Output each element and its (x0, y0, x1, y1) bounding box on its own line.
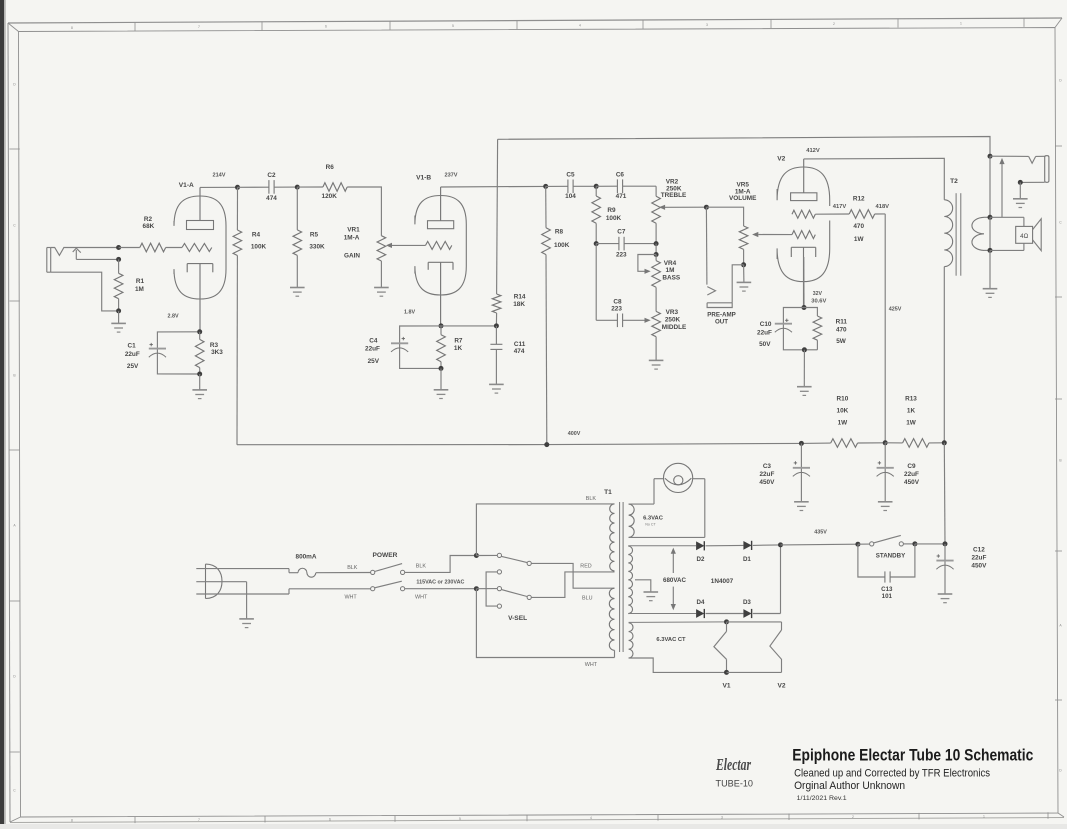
label 800mA (296, 553, 317, 560)
svg-text:1W: 1W (854, 236, 865, 243)
node WHT junction (474, 586, 479, 591)
svg-text:R4: R4 (252, 232, 261, 239)
resistor R14 (492, 139, 501, 326)
label D1 (743, 556, 751, 563)
svg-text:Electar: Electar (715, 755, 751, 774)
svg-text:R14: R14 (514, 294, 526, 301)
label PRE-AMP OUT (707, 311, 736, 325)
node cathode RC bottom junction (802, 347, 807, 352)
label 214V (212, 173, 225, 179)
wire mains neutral prong (196, 589, 289, 594)
ground under VR5 (737, 265, 752, 291)
label D4 (697, 599, 705, 606)
svg-text:BASS: BASS (662, 275, 680, 282)
svg-text:BLK: BLK (347, 565, 358, 571)
heater V1 (714, 622, 727, 673)
svg-text:8: 8 (71, 26, 73, 30)
potentiometer VR2 (652, 186, 707, 243)
svg-text:C9: C9 (907, 463, 916, 470)
svg-text:1W: 1W (906, 420, 917, 427)
label 417V (833, 204, 847, 210)
resistor R10 (831, 439, 886, 448)
svg-text:22uF: 22uF (904, 471, 919, 478)
svg-text:100K: 100K (554, 242, 570, 249)
label R2 value (143, 216, 155, 230)
wire C7 node down to C8 (595, 244, 597, 321)
svg-text:C12: C12 (973, 546, 985, 553)
svg-text:10K: 10K (837, 408, 849, 415)
svg-text:R12: R12 (853, 195, 865, 202)
label 6.3VAC CT (656, 637, 686, 643)
svg-text:1M-A: 1M-A (344, 234, 360, 241)
switch POWER pole 1 (371, 556, 475, 575)
speaker jack (990, 156, 1049, 183)
svg-text:330K: 330K (309, 244, 325, 251)
resistor R13 (885, 439, 944, 448)
svg-text:TREBLE: TREBLE (661, 192, 687, 199)
wire rail to C12 node (943, 443, 946, 544)
svg-text:1K: 1K (454, 345, 463, 352)
svg-text:D2: D2 (697, 556, 705, 563)
svg-text:5: 5 (459, 817, 461, 821)
svg-text:C7: C7 (617, 229, 626, 236)
svg-text:32V: 32V (813, 291, 823, 297)
ground under VR1 (374, 288, 389, 297)
svg-text:6: 6 (325, 25, 327, 29)
capacitor C5 (546, 180, 597, 194)
node R3 bottom junction (197, 372, 202, 377)
wire V-SEL strap (486, 572, 497, 606)
wire WHT to T1 bottom (476, 589, 614, 658)
svg-text:WHT: WHT (344, 595, 357, 601)
svg-text:R10: R10 (837, 395, 849, 402)
label 4 ohm (1020, 233, 1028, 240)
svg-text:T1: T1 (604, 489, 612, 496)
svg-text:VR4: VR4 (664, 260, 677, 267)
label 237V (444, 173, 457, 179)
ground under R5 (290, 288, 305, 297)
label 1.8V (404, 310, 415, 316)
capacitor C4 (391, 326, 441, 369)
node C12 junction (943, 541, 948, 546)
svg-text:C5: C5 (566, 172, 575, 179)
wire D3 output up (780, 545, 782, 614)
svg-text:V2: V2 (777, 156, 785, 163)
ground under R3 (192, 374, 207, 399)
svg-text:6.3VAC: 6.3VAC (643, 515, 664, 521)
pilot lamp (664, 463, 693, 492)
label R3 value (210, 342, 223, 356)
resistor R6 (297, 183, 381, 236)
svg-text:22uF: 22uF (759, 471, 774, 478)
svg-text:RED: RED (580, 564, 591, 570)
label R7 value (454, 338, 463, 352)
node speaker jack sleeve junction (1018, 180, 1023, 185)
wire V2 cathode down (803, 257, 805, 308)
label R4 value (251, 232, 267, 251)
diode D2 (696, 541, 743, 550)
diode D3 (743, 609, 780, 618)
speaker 4 ohm (990, 217, 1041, 250)
svg-text:115VAC or 230VAC: 115VAC or 230VAC (416, 579, 464, 585)
svg-text:1W: 1W (838, 420, 849, 427)
wire mains hot prong (196, 569, 289, 573)
svg-text:BLK: BLK (586, 496, 597, 502)
svg-text:VR3: VR3 (666, 309, 679, 316)
node rail R8 junction (544, 442, 549, 447)
wire V1-B cathode to R14 node (441, 325, 496, 327)
svg-text:WHT: WHT (585, 662, 598, 668)
wire V1-B plate to C5 node (441, 185, 546, 188)
svg-text:TUBE-10: TUBE-10 (716, 779, 754, 790)
node speaker tip junction (988, 154, 993, 159)
label 425V (889, 306, 902, 312)
wire V2 plate 412V to T2 (804, 158, 945, 200)
label VR3 value (662, 309, 687, 331)
label V1 (722, 683, 730, 690)
wire heater bottom to V2 (727, 671, 782, 673)
capacitor C7 (596, 237, 656, 251)
label BLU (582, 596, 593, 602)
wire wiper node to VR5 top (706, 207, 743, 226)
wire 400V rail left (237, 443, 831, 445)
ground under R7 (434, 368, 449, 398)
label V1-B (416, 174, 431, 181)
node rail C3 junction (799, 441, 804, 446)
label V2 (777, 156, 785, 163)
input jack sleeve wire (51, 272, 119, 311)
node C5 left junction (543, 184, 548, 189)
svg-text:D1: D1 (743, 556, 751, 563)
transformer T1 secondary 680VAC (628, 546, 696, 614)
label R8 value (554, 228, 570, 249)
label 30.6V (811, 298, 826, 304)
svg-text:50V: 50V (759, 341, 771, 348)
svg-text:C1: C1 (128, 342, 137, 349)
capacitor C13 (858, 544, 915, 583)
svg-text:C3: C3 (763, 463, 772, 470)
wire rectifier to standby (781, 543, 858, 546)
svg-text:7: 7 (198, 25, 200, 29)
svg-text:4: 4 (579, 23, 581, 27)
svg-text:22uF: 22uF (365, 345, 380, 352)
svg-text:120K: 120K (322, 193, 338, 200)
node rail C9 junction (883, 440, 888, 445)
capacitor C11 (490, 326, 502, 385)
ground under R1 (111, 311, 126, 332)
label 418V (876, 204, 890, 210)
label 435V (814, 529, 827, 535)
svg-text:22uF: 22uF (757, 329, 772, 336)
svg-text:No CT: No CT (645, 522, 656, 526)
node input switch junction (116, 257, 121, 262)
svg-text:GAIN: GAIN (344, 252, 360, 259)
label C5 value (565, 172, 576, 200)
potentiometer VR1 (377, 236, 425, 288)
wire mains ground prong (196, 582, 246, 619)
wire speaker NFB rail (498, 137, 990, 157)
label V1-A (179, 182, 194, 189)
svg-text:418V: 418V (876, 204, 890, 210)
svg-text:V1-B: V1-B (416, 174, 431, 181)
node BLK junction (474, 553, 479, 558)
node T2 secondary bottom junction (988, 248, 993, 253)
label 412V (806, 148, 820, 154)
ground under C9 (878, 502, 893, 511)
svg-text:412V: 412V (806, 148, 820, 154)
transformer T1 core (620, 502, 624, 652)
node R14 bottom junction (494, 323, 499, 328)
label R12 value (853, 195, 865, 243)
label WHT right (415, 595, 428, 601)
label C3 value (759, 463, 775, 486)
wire tip node down (989, 156, 991, 217)
svg-text:1M: 1M (135, 286, 144, 293)
svg-text:450V: 450V (904, 479, 920, 486)
label WHT left (344, 595, 357, 601)
svg-text:470: 470 (836, 326, 847, 333)
node R7 bottom junction (439, 366, 444, 371)
svg-text:214V: 214V (212, 173, 225, 179)
label D2 (697, 556, 705, 563)
label R10 value (837, 395, 849, 426)
label R6 value (322, 164, 338, 200)
svg-text:1: 1 (983, 814, 985, 818)
transformer T2 primary (944, 200, 952, 443)
transformer T2 secondary (972, 217, 990, 250)
capacitor C12 (936, 544, 953, 594)
ground under C12 (938, 594, 953, 603)
label WHT T1 (585, 662, 598, 668)
label C11 value (514, 341, 526, 355)
svg-text:R11: R11 (836, 318, 848, 325)
label POWER (373, 552, 398, 559)
svg-text:425V: 425V (889, 306, 902, 312)
triode V1-A (174, 187, 226, 331)
svg-text:R13: R13 (905, 395, 917, 402)
label 32V (813, 291, 823, 297)
ground under R11 (797, 350, 812, 396)
svg-text:PRE-AMP: PRE-AMP (707, 311, 736, 318)
svg-text:2: 2 (833, 22, 835, 26)
label RED (580, 564, 591, 570)
node V1-A cathode junction (197, 329, 202, 334)
speaker jack switch arrow (999, 158, 1004, 217)
transformer T1 primary (609, 504, 614, 658)
label T1 (604, 489, 612, 496)
transformer T1 secondary 6.3VAC (629, 479, 705, 538)
potentiometer VR5 (739, 226, 792, 265)
label C2 value (266, 172, 277, 202)
wire V1-A plate to node 214V (200, 186, 238, 188)
node heater bottom V1 junction (724, 670, 729, 675)
svg-text:C13: C13 (881, 586, 893, 593)
svg-text:1N4007: 1N4007 (711, 578, 734, 585)
svg-text:25V: 25V (368, 358, 380, 365)
svg-text:WHT: WHT (415, 595, 428, 601)
svg-text:25V: 25V (127, 363, 139, 370)
label C8 value (611, 299, 622, 313)
title Epiphone Electar Tube 10 Schematic (792, 746, 1033, 765)
subtitle revision (797, 795, 847, 802)
label VR5 value (729, 181, 757, 202)
top edge zone ticks (71, 18, 1024, 31)
capacitor C8 (596, 314, 651, 328)
svg-text:VR5: VR5 (736, 181, 749, 188)
label C1 value (125, 342, 140, 370)
svg-text:VOLUME: VOLUME (729, 195, 757, 202)
input jack J1 body (47, 248, 51, 273)
svg-text:1/11/2021 Rev.1: 1/11/2021 Rev.1 (797, 795, 847, 802)
input jack tip contact wire (51, 248, 119, 256)
node VR5 bottom junction (741, 262, 746, 267)
svg-text:R2: R2 (144, 216, 153, 223)
ground under C3 (794, 502, 809, 511)
capacitor C1 (149, 332, 200, 374)
label BLK T1 (586, 496, 597, 502)
wire 418V node down to rail (884, 214, 886, 443)
resistor R1 (114, 259, 123, 311)
potentiometer VR3 (652, 311, 661, 360)
svg-text:450V: 450V (759, 479, 775, 486)
label VR4 value (662, 260, 680, 282)
label R1 value (135, 278, 145, 293)
ground under speaker jack (1013, 182, 1028, 207)
capacitor C10 (775, 308, 805, 350)
svg-text:435V: 435V (814, 529, 827, 535)
input jack switch contact with arrow (73, 248, 119, 259)
ground under C11 (489, 384, 504, 393)
svg-text:C8: C8 (613, 299, 622, 306)
pre-amp out jack (706, 207, 743, 307)
svg-text:1M: 1M (666, 267, 675, 274)
node standby left junction (855, 542, 860, 547)
label 680VAC (663, 577, 686, 584)
svg-text:C4: C4 (369, 338, 378, 345)
wire V-SEL pole2 to RED tap (531, 572, 614, 598)
potentiometer VR4 (638, 255, 661, 312)
node R1 bottom junction (116, 308, 121, 313)
label C12 value (971, 546, 987, 569)
svg-text:V-SEL: V-SEL (508, 615, 527, 622)
svg-text:22uF: 22uF (971, 554, 986, 561)
ground mains safety (239, 619, 254, 628)
svg-text:400V: 400V (568, 431, 581, 437)
svg-text:800mA: 800mA (296, 553, 317, 560)
svg-text:223: 223 (616, 251, 627, 258)
resistor R9 (592, 186, 601, 243)
svg-text:8: 8 (71, 819, 73, 823)
diode D4 (696, 609, 743, 618)
label C4 value (365, 338, 380, 366)
resistor R5 (293, 187, 302, 287)
svg-text:471: 471 (616, 193, 627, 200)
mains plug (206, 564, 223, 598)
power tube V2 (777, 159, 830, 308)
label BLK right (416, 564, 427, 570)
wire heater top to V2 (727, 621, 782, 623)
label T2 (950, 178, 958, 185)
label R14 value (513, 294, 526, 309)
switch V-SEL (476, 553, 531, 608)
svg-text:30.6V: 30.6V (811, 298, 826, 304)
subtitle original author (794, 780, 905, 792)
triode V1-B (415, 187, 466, 326)
svg-text:2.8V: 2.8V (167, 313, 178, 319)
svg-text:100K: 100K (606, 215, 622, 222)
resistor R11 (804, 308, 822, 350)
svg-text:R8: R8 (555, 228, 564, 235)
capacitor C9 (877, 443, 894, 502)
resistor R4 (233, 187, 242, 444)
svg-text:18K: 18K (513, 301, 525, 308)
node V1-B cathode junction (439, 323, 444, 328)
label R13 value (905, 395, 917, 426)
svg-text:474: 474 (266, 195, 277, 202)
subtitle cleaned up (794, 767, 990, 779)
label TUBE-10 (716, 779, 754, 790)
svg-text:Epiphone Electar Tube 10 Schem: Epiphone Electar Tube 10 Schematic (792, 746, 1033, 765)
svg-text:OUT: OUT (715, 319, 728, 326)
svg-text:4Ω: 4Ω (1020, 233, 1028, 240)
left edge zone ticks (9, 83, 19, 793)
resistor R7 (437, 326, 446, 369)
svg-text:250K: 250K (665, 317, 681, 324)
label C6 value (616, 172, 627, 200)
label C13 value (881, 586, 893, 600)
svg-text:MIDDLE: MIDDLE (662, 324, 687, 331)
svg-text:STANDBY: STANDBY (876, 552, 906, 559)
scan edge strip (0, 0, 6, 824)
label VR1 value (344, 227, 361, 260)
resistor R3 (195, 332, 204, 374)
svg-text:5: 5 (452, 24, 454, 28)
node C7 left junction (594, 241, 599, 246)
svg-text:4: 4 (590, 816, 592, 820)
fuse 800mA (289, 568, 371, 577)
label 6.3VAC (643, 515, 664, 526)
svg-text:470: 470 (853, 223, 864, 230)
wire V-SEL pole1 to BLU tap (531, 563, 614, 588)
svg-text:Orginal Author Unknown: Orginal Author Unknown (794, 780, 905, 792)
svg-text:223: 223 (611, 306, 622, 313)
svg-text:T2: T2 (950, 178, 958, 185)
HV center tap ground (635, 580, 658, 601)
svg-text:6.3VAC CT: 6.3VAC CT (656, 637, 686, 643)
node T2 secondary top junction (988, 215, 993, 220)
svg-text:100K: 100K (251, 244, 267, 251)
capacitor C6 (596, 179, 656, 193)
label R5 value (309, 232, 325, 251)
logo Electar script (715, 755, 751, 774)
svg-text:R5: R5 (310, 232, 319, 239)
svg-text:D4: D4 (697, 599, 705, 606)
transformer T2 core (956, 193, 961, 276)
svg-text:R7: R7 (454, 338, 463, 345)
node VR2 bottom junction (654, 241, 659, 246)
svg-text:6: 6 (329, 818, 331, 822)
label BLK left (347, 565, 358, 571)
wire standby to C12 (915, 543, 945, 545)
node heater top V1 junction (724, 619, 729, 624)
svg-text:474: 474 (514, 348, 525, 355)
resistor R12 (815, 210, 885, 219)
svg-text:1.8V: 1.8V (404, 310, 415, 316)
node pre-amp branch junction (704, 205, 709, 210)
svg-text:104: 104 (565, 193, 576, 200)
resistor R8 (542, 186, 551, 444)
svg-text:C10: C10 (760, 321, 772, 328)
